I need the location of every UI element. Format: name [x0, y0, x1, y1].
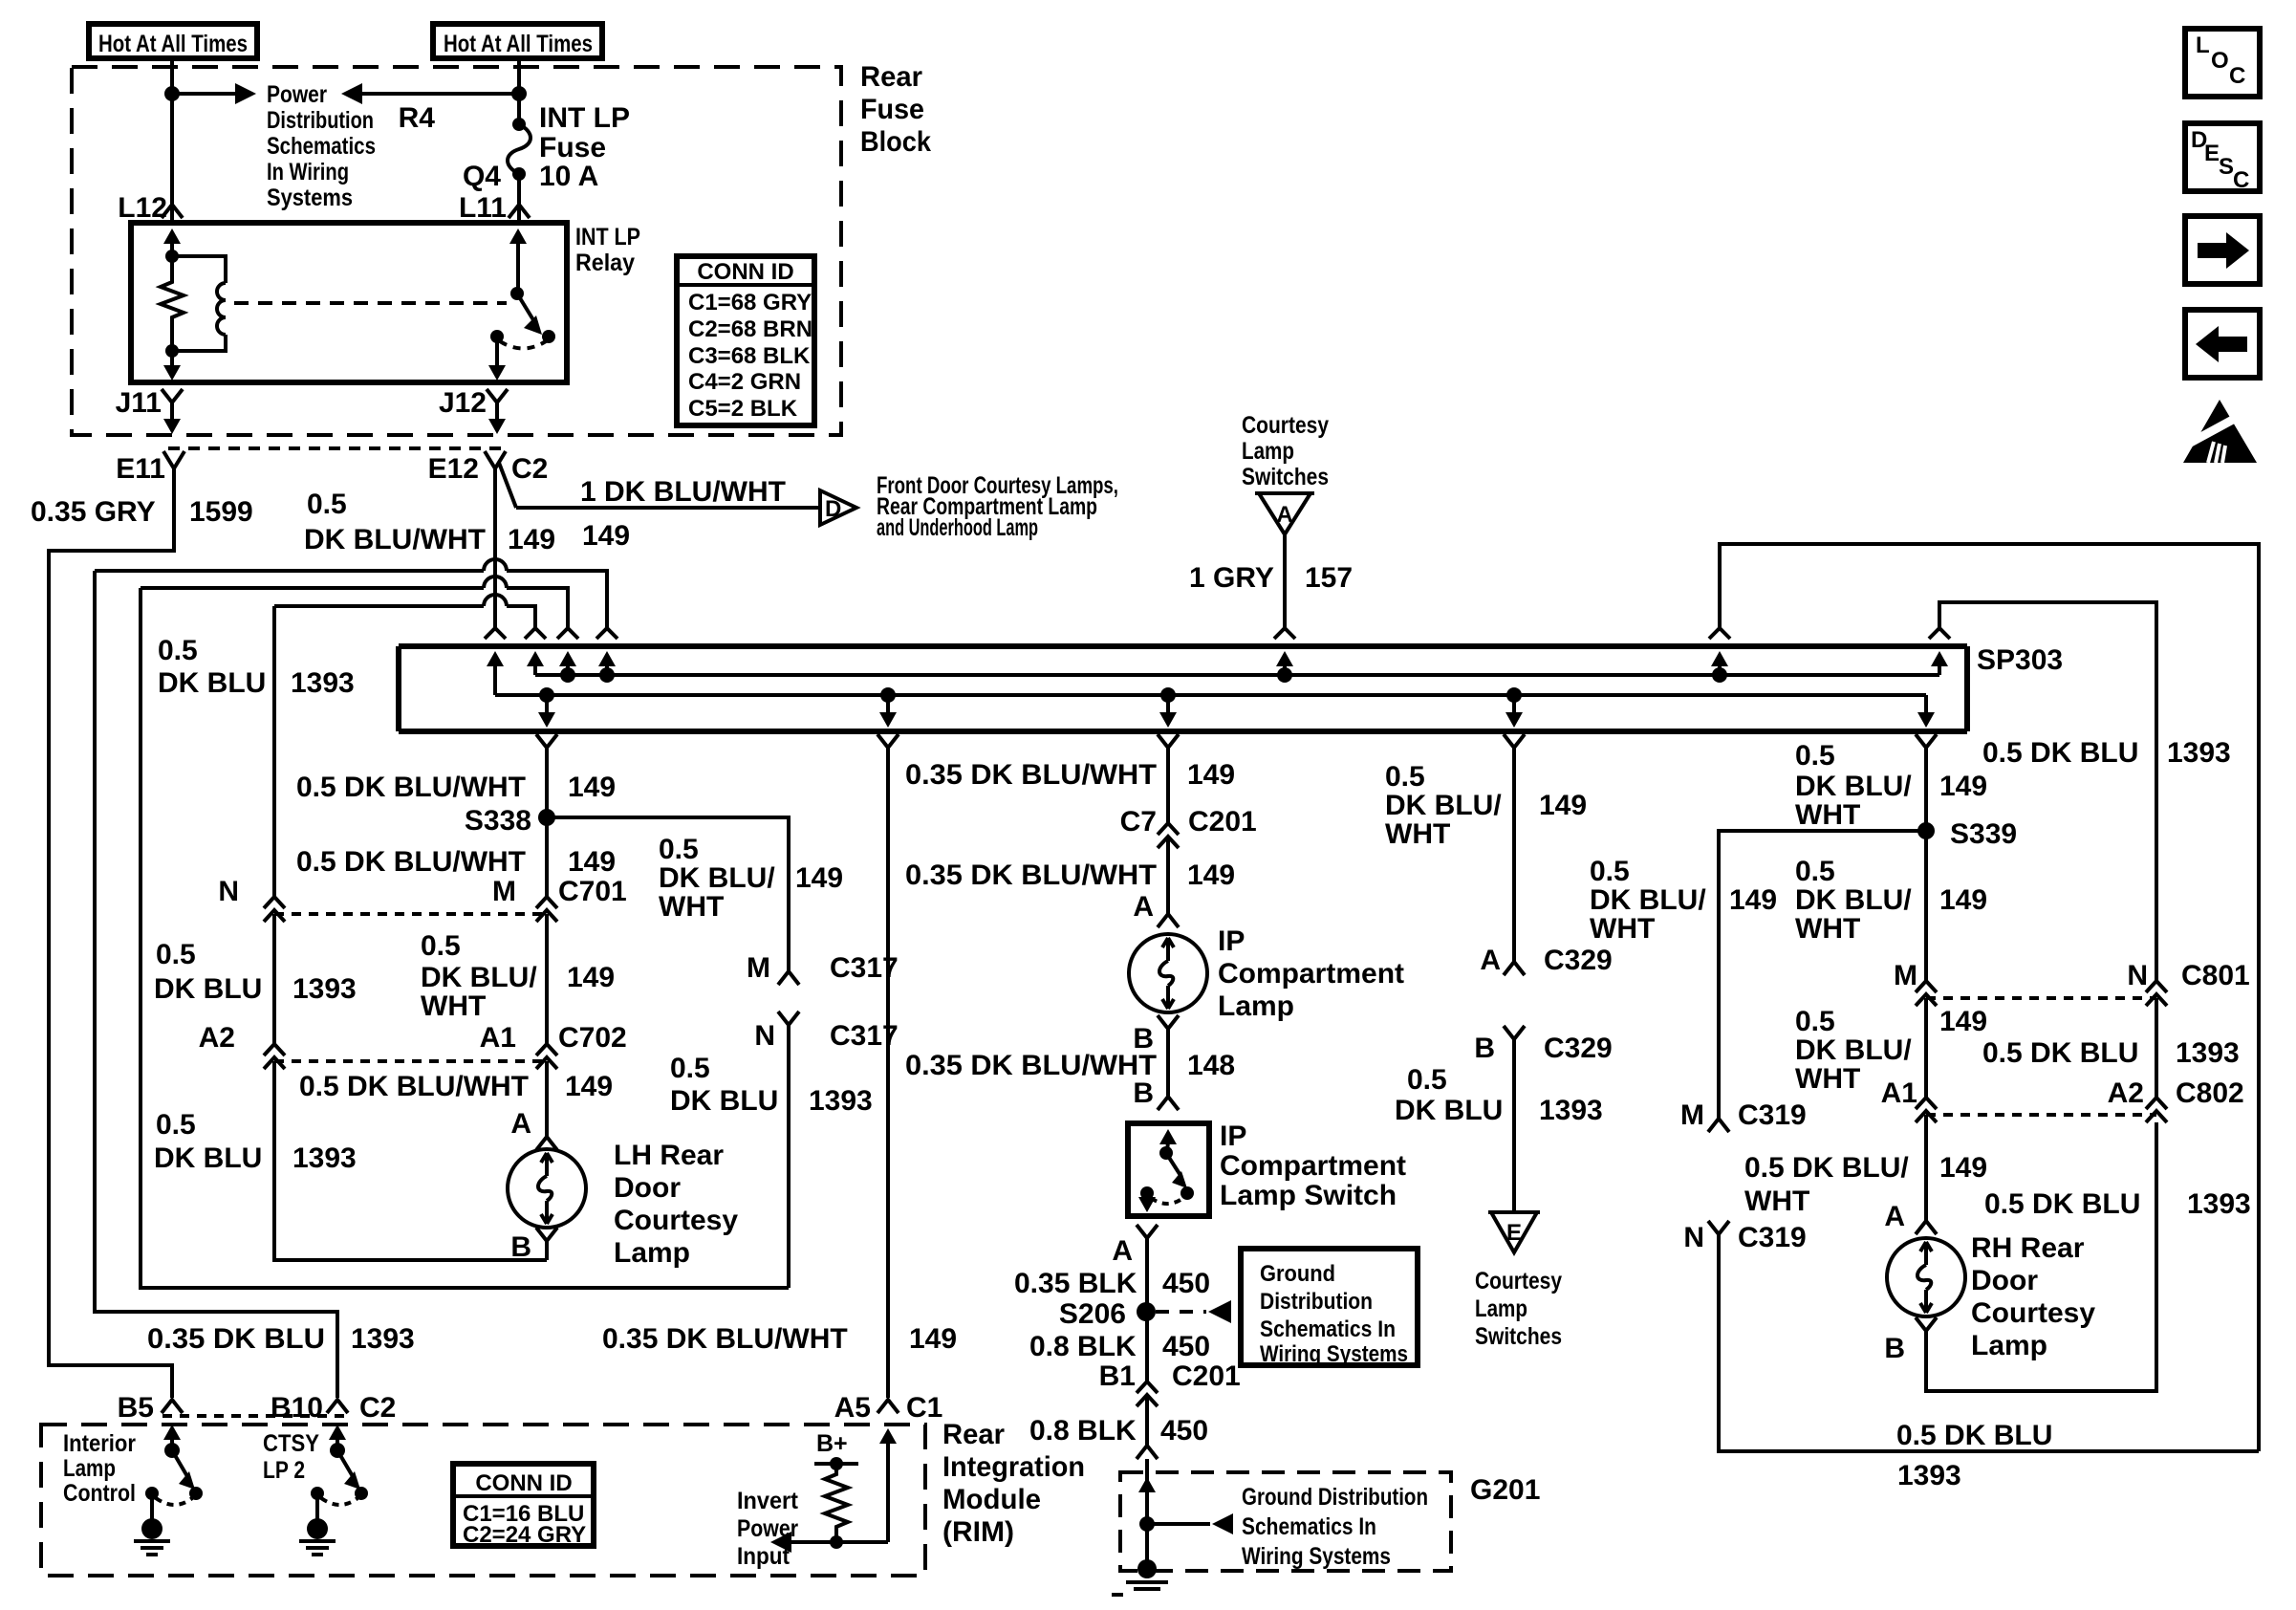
svg-text:1 DK BLU/WHT: 1 DK BLU/WHT — [580, 476, 786, 508]
connector A5 — [877, 1400, 899, 1413]
svg-text:0.8 BLK: 0.8 BLK — [1029, 1331, 1137, 1362]
Courtesy Lamp Switches note (bottom) — [1475, 1268, 1562, 1350]
wire branch 2 (1393 loop riser) with hop — [141, 586, 484, 590]
svg-text:0.35 DK BLU/WHT: 0.35 DK BLU/WHT — [905, 759, 1157, 791]
bus entry arrow x560 — [527, 651, 544, 675]
ground G201 — [1112, 1559, 1168, 1595]
svg-text:N: N — [1683, 1222, 1704, 1253]
svg-text:0.5 DK BLU/WHT: 0.5 DK BLU/WHT — [296, 846, 526, 878]
connector M C317 — [778, 971, 799, 985]
relay coil output arrow — [163, 351, 181, 381]
svg-text:0.5 DK BLU: 0.5 DK BLU — [1984, 1188, 2140, 1220]
svg-text:WHT: WHT — [1590, 913, 1655, 945]
Courtesy Lamp Switches note (top) — [1242, 412, 1329, 490]
wire branch 1 (B10 riser to bus entry) with hop — [95, 569, 484, 573]
fuse value label INT LP Fuse 10 A — [539, 102, 630, 192]
svg-text:Distribution: Distribution — [1260, 1289, 1373, 1315]
svg-text:A1: A1 — [480, 1022, 516, 1054]
svg-text:Lamp: Lamp — [1971, 1330, 2047, 1361]
destination triangle E Courtesy Lamp Switches — [1488, 1212, 1540, 1252]
svg-text:149: 149 — [1539, 790, 1587, 821]
connector B5 — [162, 1400, 183, 1413]
bus internal wire 149 — [495, 693, 1926, 697]
G201 entry arrow — [1138, 1477, 1156, 1492]
INT LP Relay label — [575, 224, 640, 276]
connector C702 right half — [536, 1044, 557, 1069]
Power Distribution Schematics In Wiring Systems note — [267, 81, 376, 211]
svg-text:149: 149 — [1939, 1152, 1987, 1184]
svg-text:C5=2 BLK: C5=2 BLK — [688, 396, 798, 422]
svg-text:B: B — [1474, 1033, 1495, 1064]
svg-text:0.35 DK BLU: 0.35 DK BLU — [147, 1323, 325, 1355]
LH Rear Door Courtesy Lamp bulb — [508, 1149, 586, 1228]
wire IP switch A to S206 — [1145, 1238, 1149, 1382]
connector B10 — [327, 1400, 348, 1413]
wire resistor to A5 riser — [836, 1540, 888, 1544]
svg-text:RH Rear: RH Rear — [1971, 1232, 2085, 1264]
svg-text:Integration: Integration — [942, 1451, 1085, 1483]
wire to G201 ground — [1145, 1524, 1149, 1560]
wire label 0.35 DK BLU/WHT 149 (RIM A5) — [602, 1323, 957, 1355]
bus entry chevron x560 — [525, 628, 546, 639]
S206 ground distribution pointer — [1156, 1300, 1231, 1323]
CONN ID table (fuse block) — [677, 256, 814, 425]
svg-text:C2=24 GRY: C2=24 GRY — [463, 1522, 586, 1548]
C2 branch slant wire — [499, 463, 516, 508]
svg-text:In Wiring: In Wiring — [267, 159, 349, 185]
bus entry chevron x518 — [485, 628, 506, 639]
interface dashed line B5-B10 — [162, 1414, 347, 1418]
svg-text:O: O — [2211, 48, 2229, 74]
svg-text:Interior: Interior — [63, 1430, 136, 1457]
wire label 0.5 DK BLU/ WHT 149 (above C329) — [1385, 761, 1587, 850]
svg-text:M: M — [1680, 1099, 1704, 1131]
svg-text:149: 149 — [795, 862, 843, 894]
bus exit connector x2015 — [1916, 734, 1937, 748]
connector M C319 — [1708, 1119, 1729, 1132]
relay coil input arrow — [163, 228, 181, 256]
G201 ground distribution pointer — [1147, 1513, 1233, 1534]
wire bus to S339 — [1924, 748, 1928, 831]
svg-text:Courtesy: Courtesy — [1971, 1297, 2095, 1329]
svg-text:0.5: 0.5 — [156, 939, 196, 970]
connector C702 left half — [264, 1044, 285, 1069]
Hot At All Times box 1 — [89, 24, 257, 58]
wire label 0.5 DK BLU/WHT 149 (below S338) — [296, 846, 616, 878]
wire 1393 loop riser — [141, 588, 789, 1288]
wire J12 to fuse block edge — [488, 402, 506, 434]
svg-text:C329: C329 — [1544, 945, 1613, 976]
svg-text:0.5: 0.5 — [1407, 1064, 1447, 1096]
svg-text:149: 149 — [568, 846, 616, 878]
svg-text:Courtesy: Courtesy — [614, 1205, 738, 1236]
bus entry arrow x594 — [559, 651, 576, 683]
wire label 0.5 DK BLU/ WHT 149 (above S339) — [1795, 740, 1987, 831]
connector E12 — [485, 451, 506, 468]
svg-text:DK BLU/: DK BLU/ — [1795, 771, 1912, 802]
svg-text:Fuse: Fuse — [539, 132, 606, 163]
svg-text:0.35 BLK: 0.35 BLK — [1014, 1268, 1137, 1299]
ground (interior lamp control) — [134, 1518, 170, 1555]
connector B IP lamp — [1158, 1015, 1179, 1029]
ground (CTSY LP 2) — [299, 1518, 336, 1555]
svg-text:C201: C201 — [1172, 1360, 1241, 1392]
svg-text:0.5 DK BLU: 0.5 DK BLU — [1982, 737, 2138, 769]
source triangle A Courtesy Lamp Switches — [1255, 493, 1314, 534]
svg-text:C7: C7 — [1120, 806, 1157, 838]
note Front Door Courtesy Lamps — [877, 472, 1118, 541]
wire label 0.5 DK BLU/ WHT 149 (C317 branch) — [659, 834, 843, 923]
wire label 0.5 DK BLU 1393 (bottom) — [1896, 1420, 2052, 1491]
svg-text:INT LP: INT LP — [575, 224, 640, 250]
svg-text:1393: 1393 — [1539, 1095, 1603, 1126]
CONN ID table (interior box) — [453, 1464, 594, 1548]
svg-text:0.5 DK BLU/WHT: 0.5 DK BLU/WHT — [299, 1071, 529, 1102]
E connector interface dashed line — [168, 446, 501, 450]
svg-text:B1: B1 — [1099, 1360, 1136, 1392]
svg-text:0.8 BLK: 0.8 BLK — [1029, 1415, 1137, 1447]
svg-text:C2=68 BRN: C2=68 BRN — [688, 316, 812, 342]
wire label 0.5 DK BLU/WHT 149 (below C702) — [299, 1071, 613, 1102]
svg-text:G201: G201 — [1470, 1474, 1540, 1506]
wire branch 3 (C701 riser) with hop — [274, 604, 484, 608]
svg-text:DK BLU/: DK BLU/ — [1795, 1034, 1912, 1066]
Rear Fuse Block label — [860, 61, 931, 158]
svg-text:B: B — [1884, 1333, 1905, 1364]
svg-text:10 A: 10 A — [539, 161, 598, 192]
wire label 0.8 BLK 450 (below B1) — [1029, 1415, 1208, 1447]
wire S338 to C317 branch — [547, 817, 789, 971]
svg-text:L: L — [2196, 33, 2210, 58]
wire C701 M down to C702 — [545, 914, 549, 1044]
svg-text:0.5: 0.5 — [421, 930, 461, 962]
wire label 0.35 GRY 1599 — [31, 496, 253, 528]
connector C802 right half — [2146, 1098, 2167, 1122]
invert power input resistor — [814, 1457, 858, 1549]
svg-text:0.5: 0.5 — [1795, 856, 1835, 887]
bus exit connector x929 — [877, 734, 899, 748]
connector into G201 — [1137, 1446, 1158, 1459]
svg-text:0.5: 0.5 — [1590, 856, 1630, 887]
svg-text:L11: L11 — [459, 192, 507, 224]
svg-text:450: 450 — [1162, 1268, 1210, 1299]
wire label 0.5 DK BLU 1393 (N C801-C802) — [1982, 1037, 2240, 1069]
svg-text:Distribution: Distribution — [267, 107, 374, 134]
svg-text:LP 2: LP 2 — [263, 1457, 305, 1484]
svg-text:WHT: WHT — [421, 990, 486, 1022]
svg-text:1599: 1599 — [189, 496, 253, 528]
wire into G201 box — [1145, 1459, 1149, 1524]
svg-text:Control: Control — [63, 1480, 136, 1507]
svg-text:C701: C701 — [558, 876, 627, 907]
junction on wire 2 — [511, 86, 527, 101]
svg-text:Module: Module — [942, 1484, 1041, 1515]
wire E11 down-left to B5 drop — [49, 468, 174, 1398]
wire label 0.5 DK BLU 1393 (below C329) — [1395, 1064, 1603, 1126]
svg-text:148: 148 — [1187, 1050, 1235, 1081]
svg-text:DK BLU/: DK BLU/ — [1590, 884, 1706, 916]
interior lamp control switch — [145, 1425, 203, 1519]
wire label 0.5 DK BLU/WHT 149 (above S338) — [296, 772, 616, 803]
connector N C317 — [778, 1012, 799, 1025]
wire label 0.35 DK BLU 1393 (B10) — [147, 1323, 415, 1355]
svg-text:149: 149 — [1939, 1006, 1987, 1037]
relay switch travel arc — [500, 341, 546, 349]
IP Compartment Lamp label — [1218, 925, 1404, 1022]
RH Rear Door Courtesy Lamp bulb — [1887, 1238, 1965, 1316]
svg-text:E11: E11 — [116, 453, 165, 485]
connector C701 dashed line — [274, 912, 547, 916]
svg-text:J11: J11 — [116, 387, 162, 419]
svg-text:149: 149 — [565, 1071, 613, 1102]
wire bus to C201 C7 — [1166, 748, 1170, 823]
svg-text:CONN ID: CONN ID — [697, 259, 793, 285]
invert power input arrow — [770, 1532, 836, 1553]
wire S338 down to C701 — [545, 817, 549, 897]
svg-text:Lamp Switch: Lamp Switch — [1220, 1180, 1397, 1211]
svg-text:0.35 DK BLU/WHT: 0.35 DK BLU/WHT — [905, 1050, 1157, 1081]
svg-text:Lamp: Lamp — [1242, 438, 1294, 465]
wire A5 into RIM with arrow — [879, 1428, 897, 1542]
svg-text:R4: R4 — [399, 102, 436, 134]
wire label 0.5 DK BLU/WHT 149 — [304, 489, 555, 555]
svg-text:DK BLU: DK BLU — [1395, 1095, 1503, 1126]
svg-text:Courtesy: Courtesy — [1475, 1268, 1562, 1295]
svg-text:WHT: WHT — [1744, 1186, 1809, 1217]
svg-text:E12: E12 — [428, 453, 479, 485]
svg-text:Switches: Switches — [1242, 464, 1329, 490]
connector J12 — [487, 389, 508, 402]
svg-text:J12: J12 — [439, 387, 487, 419]
svg-text:D: D — [825, 496, 841, 522]
G201 dashed box — [1120, 1472, 1451, 1571]
connector C801 dashed line — [1926, 996, 2156, 1000]
wire C701 N down to C702 — [272, 914, 276, 1044]
svg-text:0.5: 0.5 — [670, 1053, 710, 1084]
splice S339 — [1917, 818, 2017, 850]
right arrow icon box — [2185, 216, 2260, 284]
svg-text:Lamp: Lamp — [63, 1455, 116, 1482]
connector L12 — [162, 205, 183, 218]
wire B10 riser — [95, 571, 337, 1398]
svg-text:LH Rear: LH Rear — [614, 1140, 724, 1171]
svg-text:C329: C329 — [1544, 1033, 1613, 1064]
svg-text:Schematics In: Schematics In — [1242, 1513, 1376, 1540]
connector C801 right half — [2146, 981, 2167, 1006]
bus entry arrow x2029 — [1931, 651, 1948, 675]
wire C801 riser top loop — [1939, 602, 2156, 981]
svg-text:CONN ID: CONN ID — [475, 1470, 572, 1496]
svg-text:0.5: 0.5 — [1795, 740, 1835, 772]
svg-text:M: M — [492, 876, 516, 907]
svg-text:DK BLU/: DK BLU/ — [421, 962, 537, 993]
Hot At All Times box 2 — [433, 24, 602, 58]
svg-text:149: 149 — [1939, 771, 1987, 802]
wire IP lamp B to switch — [1166, 1029, 1170, 1097]
svg-text:WHT: WHT — [1795, 913, 1860, 945]
svg-text:Door: Door — [614, 1172, 681, 1204]
wire C2 branch to D arrow — [516, 506, 820, 510]
svg-text:Lamp: Lamp — [1475, 1295, 1527, 1322]
bus internal wire 1393 — [535, 673, 1939, 677]
svg-text:C2: C2 — [511, 453, 548, 485]
svg-text:A: A — [1276, 502, 1292, 528]
connector C801 left half — [1916, 981, 1937, 1006]
svg-text:0.35 DK BLU/WHT: 0.35 DK BLU/WHT — [905, 859, 1157, 891]
destination arrow D — [820, 490, 856, 525]
svg-text:0.5: 0.5 — [307, 489, 347, 520]
svg-text:A2: A2 — [199, 1022, 235, 1054]
wire C701 riser — [272, 606, 276, 897]
svg-text:DK BLU/WHT: DK BLU/WHT — [304, 524, 486, 555]
svg-text:450: 450 — [1160, 1415, 1208, 1447]
wire label 1 DK BLU/WHT 149 — [580, 476, 786, 552]
splice bus SP303 box — [399, 646, 1967, 731]
svg-text:Compartment: Compartment — [1218, 958, 1404, 990]
connector C701 right half — [536, 897, 557, 922]
relay resistor — [161, 256, 184, 351]
CTSY LP 2 switch — [311, 1425, 368, 1519]
splice S338 — [465, 805, 555, 837]
wire bus to A C329 — [1512, 748, 1516, 962]
wire N C319 down to bottom loop — [1719, 1234, 2259, 1451]
bus entry arrow x635 — [598, 651, 616, 683]
svg-text:Systems: Systems — [267, 185, 353, 211]
svg-text:1393: 1393 — [809, 1085, 873, 1117]
svg-text:WHT: WHT — [1385, 818, 1450, 850]
svg-text:N: N — [754, 1020, 775, 1052]
svg-text:0.5: 0.5 — [659, 834, 699, 865]
wire bus to A5 — [886, 748, 890, 1398]
wire A2 down to lamp return — [274, 1061, 547, 1260]
svg-text:Lamp: Lamp — [1218, 990, 1294, 1022]
svg-text:149: 149 — [909, 1323, 957, 1355]
wire label 0.5 DK BLU 1393 (below C802 right) — [1984, 1188, 2251, 1220]
svg-text:Schematics: Schematics — [267, 133, 376, 160]
connector C201 B1 — [1137, 1382, 1158, 1406]
wire A1 down to LH lamp — [545, 1061, 549, 1137]
bus exit arrow x1584 (C329) — [1505, 687, 1523, 728]
splice S206 — [1059, 1298, 1156, 1330]
bus exit connector x1222 — [1158, 734, 1179, 748]
wire label 0.35 DK BLU/WHT 149 (above C7) — [905, 759, 1235, 791]
connector A C329 — [1504, 962, 1525, 975]
svg-text:1393: 1393 — [2187, 1188, 2251, 1220]
fuse INT LP Fuse 10 A — [508, 118, 531, 181]
svg-text:Power: Power — [267, 81, 327, 108]
wire J11 to fuse block edge — [163, 402, 181, 434]
svg-text:0.5 DK BLU/WHT: 0.5 DK BLU/WHT — [296, 772, 526, 803]
G201 junction — [1139, 1516, 1155, 1532]
svg-text:Block: Block — [860, 126, 931, 158]
bus entry chevron x635 — [596, 628, 617, 639]
svg-text:Schematics In: Schematics In — [1260, 1316, 1396, 1342]
bus exit arrow x1222 (IP lamp) — [1159, 687, 1177, 728]
bus entry chevron x1344 — [1274, 628, 1295, 639]
svg-text:B+: B+ — [816, 1430, 848, 1457]
svg-text:WHT: WHT — [1795, 1063, 1860, 1095]
svg-text:IP: IP — [1218, 925, 1245, 957]
svg-text:450: 450 — [1162, 1331, 1210, 1362]
svg-text:Wiring Systems: Wiring Systems — [1242, 1543, 1391, 1570]
connector A RH lamp — [1916, 1221, 1937, 1234]
wire C802 A1 down to RH lamp — [1924, 1115, 1928, 1221]
relay switch input arrow — [509, 228, 527, 294]
svg-text:(RIM): (RIM) — [942, 1516, 1014, 1548]
svg-text:149: 149 — [508, 524, 555, 555]
svg-text:Hot At All Times: Hot At All Times — [98, 31, 248, 57]
Rear Integration Module (RIM) label — [942, 1419, 1085, 1548]
IP Compartment Lamp bulb — [1129, 934, 1207, 1012]
Interior Lamp Control dashed box — [41, 1425, 925, 1576]
wire C801 M down to C802 — [1924, 998, 1928, 1098]
svg-text:S339: S339 — [1950, 818, 2017, 850]
wire label 0.5 DK BLU 1393 (below C317) — [670, 1053, 873, 1117]
arrow to Power Distribution text (left) — [341, 83, 519, 104]
relay switch contact right — [542, 330, 555, 343]
connector B RH lamp — [1916, 1317, 1937, 1331]
svg-text:Hot At All Times: Hot At All Times — [444, 31, 593, 57]
wire bus to S338 — [545, 748, 549, 817]
svg-text:Lamp: Lamp — [614, 1237, 690, 1269]
svg-text:S338: S338 — [465, 805, 531, 837]
left arrow icon box — [2185, 310, 2260, 378]
svg-text:149: 149 — [1187, 759, 1235, 791]
wire label 0.35 DK BLU/WHT 149 (below C7) — [905, 859, 1235, 891]
svg-text:N: N — [2127, 960, 2148, 991]
svg-text:C4=2 GRN: C4=2 GRN — [688, 369, 801, 395]
svg-text:149: 149 — [568, 772, 616, 803]
wire label 0.5 DK BLU 1393 (left of C701-C702) — [154, 939, 357, 1005]
Ground Distribution note box (S206) — [1241, 1249, 1418, 1367]
svg-text:0.35 DK BLU/WHT: 0.35 DK BLU/WHT — [602, 1323, 848, 1355]
svg-text:Wiring Systems: Wiring Systems — [1260, 1341, 1408, 1367]
bus entry arrow x518 — [487, 651, 504, 695]
svg-text:INT LP: INT LP — [539, 102, 630, 134]
IP switch mechanism — [1138, 1129, 1194, 1212]
svg-text:Rear: Rear — [860, 61, 922, 93]
Rear Fuse Block dashed box — [72, 67, 841, 435]
svg-text:DK BLU: DK BLU — [154, 973, 262, 1005]
Interior Lamp Control label — [63, 1430, 136, 1507]
connector C702 dashed line — [274, 1059, 547, 1063]
svg-text:M: M — [1894, 960, 1917, 991]
svg-text:B10: B10 — [271, 1392, 323, 1424]
connector C201 C7 — [1158, 823, 1179, 848]
svg-text:Relay: Relay — [575, 250, 635, 276]
svg-text:C319: C319 — [1738, 1222, 1807, 1253]
svg-text:B5: B5 — [118, 1392, 154, 1424]
wire C201 to IP lamp — [1166, 837, 1170, 914]
svg-text:0.5: 0.5 — [1795, 1006, 1835, 1037]
svg-text:1393: 1393 — [351, 1323, 415, 1355]
svg-text:149: 149 — [1939, 884, 1987, 916]
wire label 0.8 BLK 450 (above B1) — [1029, 1331, 1210, 1362]
connector B LH lamp — [536, 1228, 557, 1241]
wire fuse to relay — [517, 174, 521, 223]
svg-text:L12: L12 — [118, 192, 167, 224]
svg-text:and Underhood Lamp: and Underhood Lamp — [877, 514, 1038, 541]
wire S339 branch to C319 — [1719, 831, 1926, 1119]
svg-text:149: 149 — [1187, 859, 1235, 891]
relay switch contact left — [490, 330, 504, 343]
connector C701 left half — [264, 897, 285, 922]
svg-text:C: C — [2229, 63, 2245, 89]
svg-text:DK BLU: DK BLU — [670, 1085, 778, 1117]
svg-text:A: A — [510, 1108, 531, 1140]
RH Rear Door Courtesy Lamp label — [1971, 1232, 2095, 1361]
wire label 1 GRY 157 — [1189, 562, 1353, 594]
